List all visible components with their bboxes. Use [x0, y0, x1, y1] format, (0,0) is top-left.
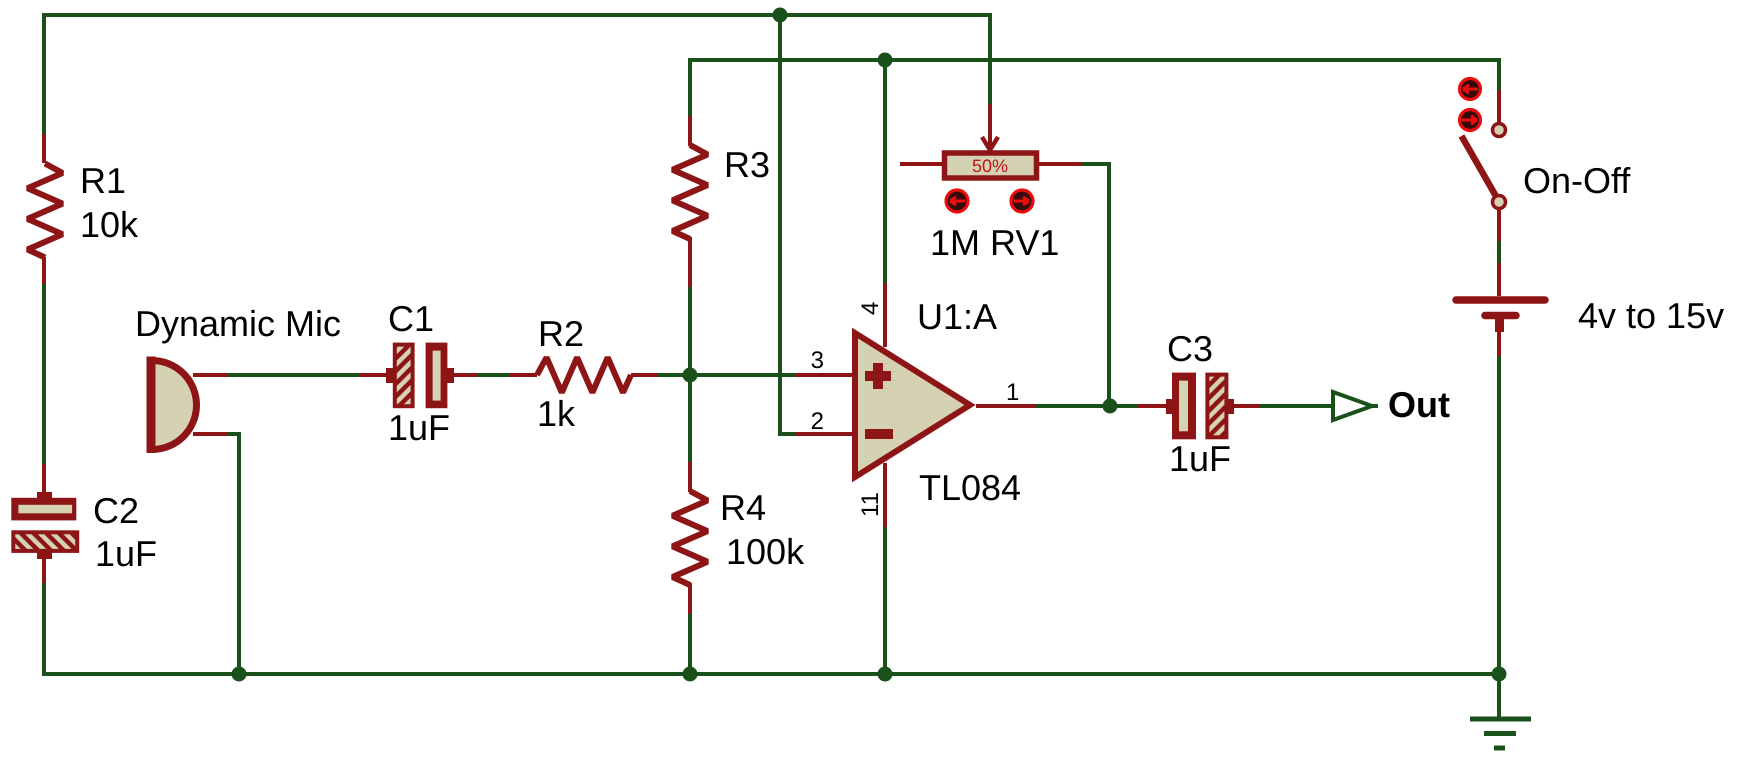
output terminal arrow Out [1333, 384, 1450, 425]
svg-text:TL084: TL084 [919, 467, 1021, 508]
resistor R3 [673, 116, 771, 289]
wire: RV1 wiper-right terminal down to output node [1081, 164, 1109, 408]
junction: feedback riser on top rail [773, 8, 788, 23]
svg-text:R1: R1 [80, 160, 126, 201]
RV1 adjust button right [1011, 190, 1033, 212]
svg-text:2: 2 [811, 408, 824, 435]
junction: pin 11 on bottom rail [878, 667, 893, 682]
junction: R4 on bottom rail [683, 667, 698, 682]
svg-text:C2: C2 [93, 490, 139, 531]
svg-text:1uF: 1uF [95, 533, 157, 574]
wire: R2 to op-amp pin 3 node [658, 373, 797, 377]
svg-text:10k: 10k [80, 204, 139, 245]
wire: R4 to bottom rail [688, 614, 692, 676]
svg-text:11: 11 [857, 492, 884, 517]
svg-text:4: 4 [857, 302, 884, 315]
capacitor C1 [359, 298, 480, 448]
wire: pin 11 to bottom rail [883, 525, 887, 676]
op-amp U1:A TL084 [795, 283, 1038, 527]
junction: mic return on bottom rail [232, 667, 247, 682]
svg-text:C3: C3 [1167, 328, 1213, 369]
wire: R3 to R4 through pin-3 node [688, 287, 692, 464]
svg-text:Out: Out [1388, 384, 1450, 425]
svg-text:U1:A: U1:A [917, 296, 997, 337]
wire: R3 riser and top supply rail to switch [690, 60, 1499, 118]
switch SW1 On-Off [1462, 90, 1632, 241]
wire: battery to bottom rail [1497, 356, 1501, 676]
potentiometer RV1 1M [900, 104, 1081, 263]
capacitor C2 [11, 464, 157, 585]
resistor R4 [673, 462, 806, 616]
resistor R2 [510, 313, 660, 434]
junction: R3/R4 divider on pin-3 wire [683, 368, 698, 383]
wire: R1 to C2 [42, 284, 46, 466]
svg-text:4v to 15v: 4v to 15v [1578, 295, 1724, 336]
svg-text:3: 3 [811, 347, 824, 374]
wire: op-amp output to C3 [1036, 404, 1139, 408]
capacitor C3 [1137, 328, 1262, 479]
svg-text:1M RV1: 1M RV1 [930, 222, 1059, 263]
wire: V+ top rail from left rail to RV1 wiper drop [42, 15, 990, 104]
svg-text:On-Off: On-Off [1523, 160, 1631, 201]
battery BT1 4v to 15v [1456, 263, 1724, 358]
wire: mic return to bottom rail [227, 434, 239, 674]
svg-text:C1: C1 [388, 298, 434, 339]
svg-text:1: 1 [1006, 379, 1019, 406]
svg-text:R2: R2 [538, 313, 584, 354]
wire: left rail down to R1 [42, 13, 46, 136]
svg-text:Dynamic Mic: Dynamic Mic [135, 303, 341, 344]
svg-text:50%: 50% [972, 156, 1008, 176]
wire: bottom ground rail [42, 672, 1500, 676]
svg-text:1uF: 1uF [1169, 438, 1231, 479]
microphone MIC1 Dynamic Mic [135, 303, 341, 453]
ground symbol [1470, 719, 1531, 748]
switch actuate button upper [1460, 79, 1481, 100]
junction: pin-4 supply on y60 rail [878, 53, 893, 68]
junction: battery column on bottom rail [1492, 667, 1507, 682]
wire: switch to battery [1497, 241, 1501, 264]
resistor R1 [28, 134, 140, 286]
svg-text:R4: R4 [720, 487, 766, 528]
svg-text:R3: R3 [724, 144, 770, 185]
junction: feedback tap on output wire [1103, 399, 1118, 414]
svg-text:1uF: 1uF [388, 407, 450, 448]
wire: mic output to C1 [227, 373, 361, 377]
svg-text:100k: 100k [726, 531, 805, 572]
switch actuate button lower [1460, 110, 1481, 131]
svg-text:1k: 1k [537, 393, 576, 434]
RV1 adjust button left [946, 190, 968, 212]
wire: C1 to R2 [478, 373, 512, 377]
wire: C3 to output terminal [1260, 404, 1333, 408]
wire: ground stem [1497, 674, 1501, 719]
wire: pin 4 supply drop [883, 58, 887, 285]
wire: feedback riser from top rail to op-amp pin 2 [780, 13, 797, 434]
wire: C2 to bottom rail [42, 583, 46, 676]
